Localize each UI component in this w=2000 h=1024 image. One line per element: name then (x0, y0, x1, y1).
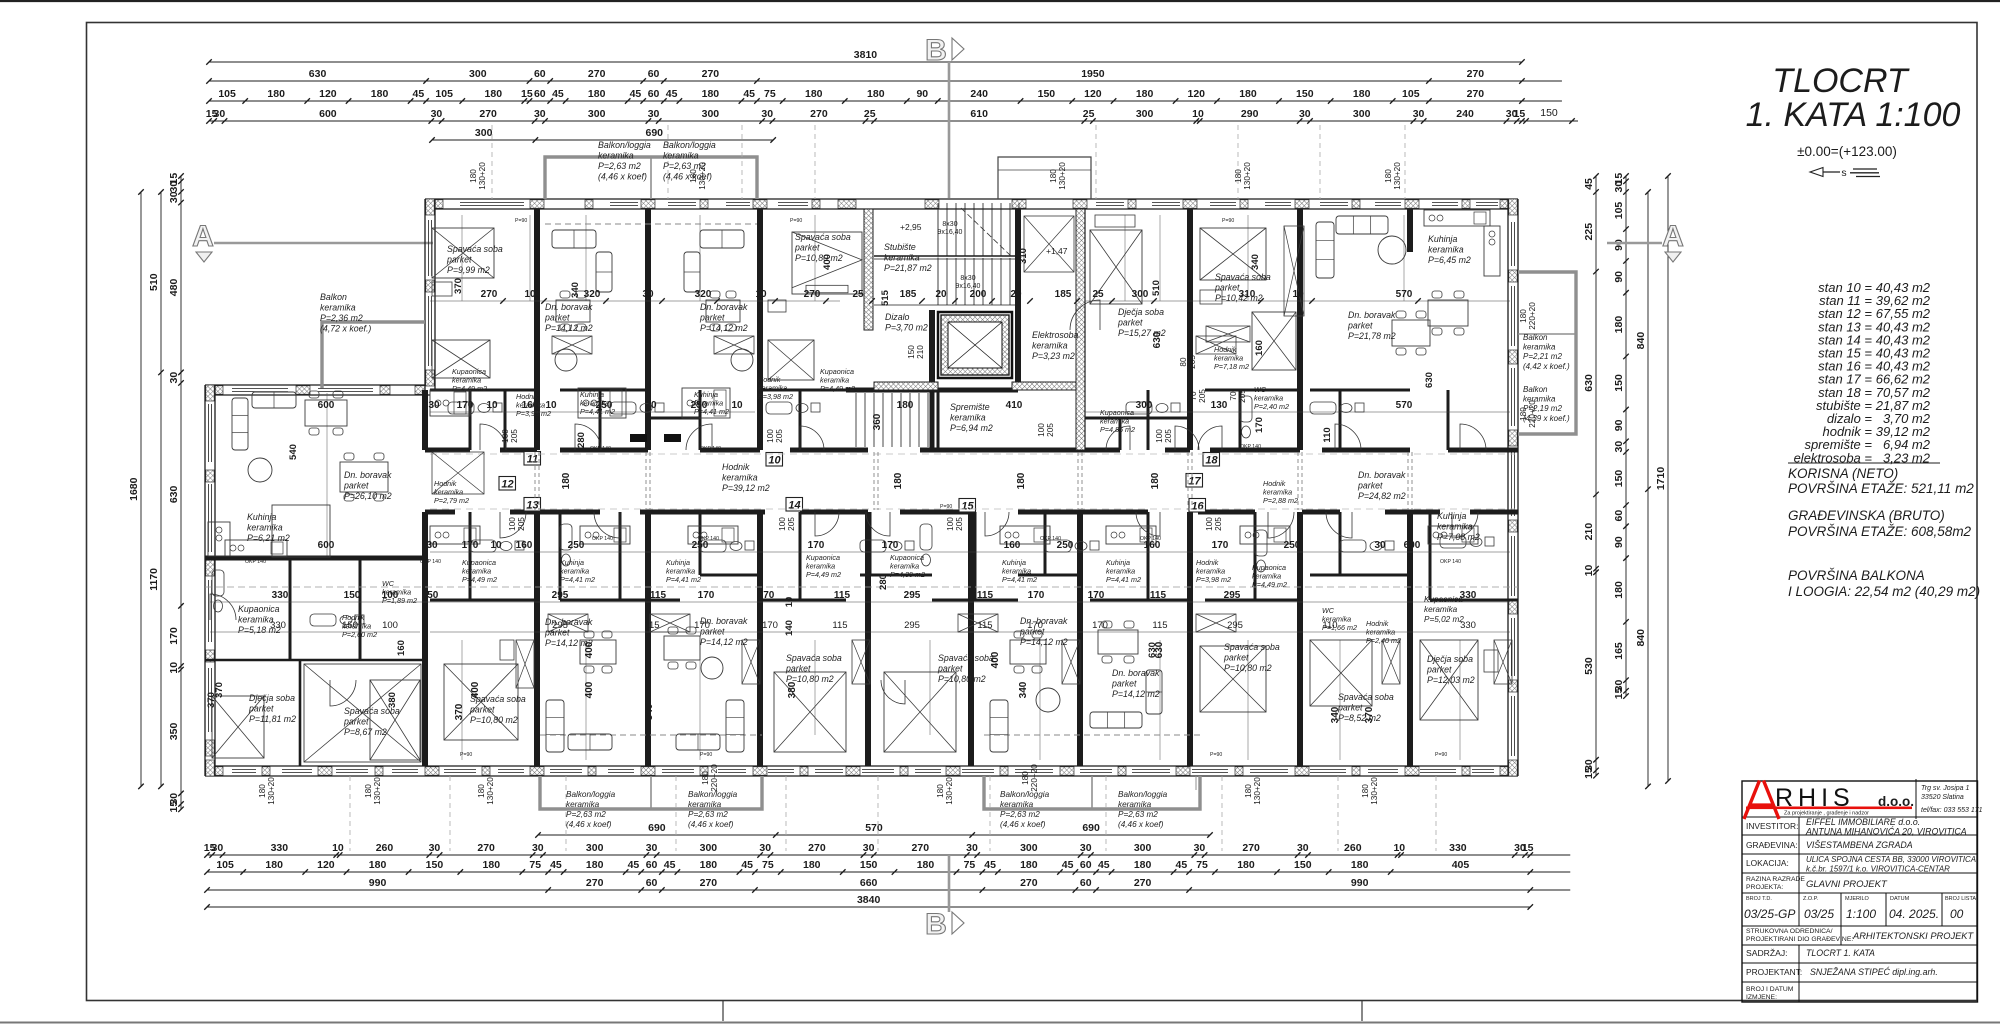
svg-text:115: 115 (650, 590, 667, 601)
svg-text:P=14,12 m2: P=14,12 m2 (1112, 689, 1160, 699)
svg-text:630: 630 (1152, 331, 1163, 348)
svg-text:300: 300 (475, 127, 493, 139)
svg-text:03/25: 03/25 (1804, 907, 1834, 921)
svg-text:180: 180 (1613, 581, 1625, 599)
svg-text:SNJEŽANA STIPEĆ dipl.ing.arh.: SNJEŽANA STIPEĆ dipl.ing.arh. (1810, 967, 1938, 977)
svg-text:840: 840 (1635, 629, 1647, 647)
svg-text:45: 45 (1176, 859, 1188, 871)
svg-text:180: 180 (1351, 859, 1369, 871)
svg-text:330: 330 (270, 620, 286, 631)
svg-text:300: 300 (588, 108, 606, 120)
svg-text:600: 600 (318, 400, 335, 411)
svg-text:P=14,12 m2: P=14,12 m2 (545, 323, 593, 333)
corridor wall upper (425, 448, 1518, 453)
svg-text:540: 540 (288, 444, 299, 460)
svg-text:180: 180 (477, 784, 486, 798)
svg-text:205: 205 (1198, 389, 1207, 403)
svg-text:290: 290 (1241, 108, 1259, 120)
svg-text:350: 350 (168, 723, 180, 741)
svg-text:165: 165 (1613, 642, 1625, 660)
svg-text:ARHITEKTONSKI PROJEKT: ARHITEKTONSKI PROJEKT (1852, 931, 1975, 941)
svg-text:P=2,63 m2: P=2,63 m2 (598, 161, 641, 171)
svg-text:300: 300 (1136, 400, 1153, 411)
svg-text:10: 10 (731, 400, 743, 411)
svg-text:33520 Slatina: 33520 Slatina (1921, 794, 1964, 801)
stair lower flight (856, 393, 928, 447)
svg-text:30: 30 (1299, 108, 1311, 120)
svg-text:185: 185 (900, 289, 917, 300)
title block label dividers (1799, 817, 1942, 1002)
svg-text:240: 240 (1456, 108, 1474, 120)
svg-text:Spavaća soba: Spavaća soba (795, 232, 851, 242)
row gradjevina (1746, 840, 1913, 850)
svg-text:P=21,78 m2: P=21,78 m2 (1348, 331, 1396, 341)
tiny P=90 labels (460, 218, 1447, 758)
svg-text:60: 60 (1080, 859, 1092, 871)
svg-text:180: 180 (258, 784, 267, 798)
svg-text:Dn. boravak: Dn. boravak (1348, 310, 1396, 320)
outer wall right (1507, 199, 1509, 776)
svg-text:P=90: P=90 (1435, 752, 1447, 758)
svg-text:300: 300 (1353, 108, 1371, 120)
interior wall grid verticals (425, 209, 1410, 766)
svg-text:295: 295 (904, 620, 920, 631)
svg-text:180: 180 (1239, 88, 1257, 100)
svg-text:180: 180 (1519, 407, 1528, 421)
svg-text:Spavaća soba: Spavaća soba (447, 244, 503, 254)
svg-text:parket: parket (1357, 481, 1383, 491)
svg-text:630: 630 (309, 68, 327, 80)
svg-text:170: 170 (882, 540, 899, 551)
room labels left wing / corridor (238, 345, 1298, 639)
inner dim strip y=598 (272, 590, 1477, 601)
svg-text:280: 280 (878, 574, 889, 590)
top dimension chain row 2 (209, 80, 1562, 82)
svg-text:170: 170 (462, 540, 479, 551)
svg-text:3810: 3810 (854, 49, 878, 61)
svg-text:10: 10 (768, 455, 781, 467)
svg-text:Balkon/loggia: Balkon/loggia (663, 140, 716, 150)
svg-text:30: 30 (1374, 540, 1386, 551)
svg-text:10: 10 (490, 540, 502, 551)
small paired dims (180/130+20 etc) (258, 162, 1537, 805)
svg-text:OKP 140: OKP 140 (590, 446, 611, 452)
svg-text:30: 30 (1194, 842, 1206, 854)
svg-text:370: 370 (454, 703, 465, 720)
svg-text:330: 330 (271, 842, 289, 854)
svg-text:90: 90 (1613, 271, 1625, 283)
svg-text:45: 45 (741, 859, 753, 871)
svg-text:90: 90 (1613, 536, 1625, 548)
svg-text:s: s (1841, 167, 1846, 179)
svg-text:parket: parket (248, 704, 274, 714)
svg-text:180: 180 (1016, 472, 1027, 489)
svg-text:P=4,39 m2: P=4,39 m2 (890, 570, 925, 579)
svg-text:25: 25 (852, 289, 864, 300)
top dimension chain row 4 (209, 120, 1562, 122)
svg-text:10: 10 (168, 662, 180, 674)
svg-text:400: 400 (990, 651, 1001, 668)
svg-text:100: 100 (508, 517, 517, 531)
svg-text:295: 295 (1227, 620, 1243, 631)
row sadrzaj (1746, 948, 1875, 958)
svg-text:110: 110 (1322, 427, 1333, 442)
svg-text:510: 510 (1151, 280, 1162, 296)
svg-text:80: 80 (1179, 357, 1188, 367)
svg-text:205: 205 (775, 429, 784, 443)
svg-text:180: 180 (1134, 859, 1152, 871)
svg-text:45: 45 (628, 859, 640, 871)
svg-text:IZMJENE:: IZMJENE: (1746, 994, 1777, 1001)
svg-text:250: 250 (691, 400, 708, 411)
svg-text:150: 150 (342, 620, 358, 631)
svg-text:(4,46 x koef): (4,46 x koef) (566, 820, 612, 829)
svg-text:170: 170 (694, 620, 710, 631)
svg-text:295: 295 (552, 620, 568, 631)
svg-text:8x30: 8x30 (960, 275, 975, 282)
svg-text:P=2,40 m2: P=2,40 m2 (1254, 402, 1289, 411)
svg-text:200: 200 (970, 289, 987, 300)
svg-text:keramika: keramika (238, 615, 274, 625)
svg-text:205: 205 (1188, 355, 1197, 369)
svg-text:P=4,49 m2: P=4,49 m2 (1252, 580, 1287, 589)
svg-text:30: 30 (429, 842, 441, 854)
svg-text:210: 210 (916, 345, 925, 359)
svg-text:150: 150 (344, 590, 361, 601)
svg-text:BROJ I DATUM: BROJ I DATUM (1746, 986, 1794, 993)
svg-text:parket: parket (446, 255, 472, 265)
svg-text:P=90: P=90 (1222, 218, 1234, 224)
svg-text:Elektrosoba: Elektrosoba (1032, 330, 1079, 340)
svg-text:170: 170 (1092, 620, 1108, 631)
inner dim strip y=408 (318, 400, 1413, 411)
svg-text:150: 150 (1038, 88, 1056, 100)
svg-text:120: 120 (317, 859, 335, 871)
svg-text:00: 00 (1950, 907, 1964, 921)
svg-text:P=90: P=90 (940, 504, 952, 510)
svg-text:(4,46 x koef): (4,46 x koef) (1118, 820, 1164, 829)
svg-text:160: 160 (396, 640, 407, 656)
svg-text:P=2,40 m2: P=2,40 m2 (1366, 636, 1401, 645)
svg-text:Z.O.P.: Z.O.P. (1803, 896, 1819, 902)
svg-text:keramika: keramika (598, 151, 634, 161)
svg-text:OKP 140: OKP 140 (1240, 444, 1261, 450)
outer wall top (left wing) (205, 384, 430, 386)
svg-text:75: 75 (1196, 859, 1208, 871)
svg-text:30: 30 (863, 842, 875, 854)
svg-text:300: 300 (1136, 108, 1154, 120)
svg-text:180: 180 (893, 472, 904, 489)
svg-text:60: 60 (1080, 877, 1092, 889)
svg-text:Kupaonica: Kupaonica (238, 604, 280, 614)
balcony bottom right pair (984, 776, 1200, 809)
svg-text:12: 12 (501, 479, 513, 491)
svg-text:Balkon: Balkon (320, 292, 347, 302)
svg-text:Dizalo: Dizalo (885, 312, 910, 322)
svg-text:70: 70 (1189, 391, 1198, 401)
svg-text:Kuhinja: Kuhinja (247, 512, 276, 522)
svg-text:105: 105 (435, 88, 453, 100)
inner dim lines across rooms (210, 301, 1510, 632)
svg-text:100: 100 (382, 620, 398, 631)
svg-text:170: 170 (457, 400, 474, 411)
svg-text:205: 205 (510, 429, 519, 443)
svg-text:P=6,94 m2: P=6,94 m2 (950, 423, 993, 433)
svg-text:160: 160 (1254, 340, 1265, 356)
svg-text:30: 30 (428, 400, 440, 411)
svg-text:P=4,41 m2: P=4,41 m2 (560, 575, 595, 584)
svg-text:300: 300 (700, 842, 718, 854)
svg-text:510: 510 (148, 273, 160, 291)
svg-text:keramika: keramika (722, 473, 758, 483)
svg-text:630: 630 (1583, 374, 1595, 392)
svg-text:340: 340 (1018, 681, 1029, 698)
svg-text:keramika: keramika (1118, 800, 1152, 809)
svg-text:115: 115 (1150, 590, 1167, 601)
svg-text:30: 30 (168, 191, 180, 203)
svg-text:180: 180 (1244, 784, 1253, 798)
svg-text:17: 17 (1188, 476, 1201, 488)
svg-text:P=2,63 m2: P=2,63 m2 (1118, 810, 1158, 819)
svg-text:15: 15 (1613, 687, 1625, 699)
svg-text:30: 30 (1080, 842, 1092, 854)
svg-text:keramika: keramika (950, 413, 986, 423)
svg-text:P=10,80 m2: P=10,80 m2 (938, 674, 986, 684)
svg-text:POVRŠINA ETAŽE: 521,11 m2: POVRŠINA ETAŽE: 521,11 m2 (1788, 481, 1974, 496)
svg-text:25: 25 (1083, 108, 1095, 120)
row broj i datum (1746, 986, 1794, 1001)
svg-text:400: 400 (470, 681, 481, 698)
svg-text:330: 330 (1460, 590, 1477, 601)
svg-text:30: 30 (1613, 441, 1625, 453)
svg-text:P=3,23 m2: P=3,23 m2 (1032, 351, 1075, 361)
svg-text:210: 210 (1583, 523, 1595, 541)
gradjevinska bruto (1788, 508, 1972, 539)
svg-text:130+20: 130+20 (267, 777, 276, 805)
svg-text:270: 270 (700, 877, 718, 889)
page top edge (0, 0, 2000, 2)
svg-text:OKP 140: OKP 140 (700, 446, 721, 452)
svg-text:OKP 140: OKP 140 (1040, 536, 1061, 542)
svg-text:keramika: keramika (1437, 522, 1473, 532)
svg-text:690: 690 (646, 127, 664, 139)
svg-text:parket: parket (1223, 653, 1249, 663)
svg-text:20: 20 (1010, 289, 1022, 300)
svg-text:P=90: P=90 (515, 218, 527, 224)
svg-text:115: 115 (834, 590, 851, 601)
svg-text:15: 15 (521, 88, 533, 100)
svg-text:180: 180 (701, 771, 710, 785)
svg-text:15: 15 (1522, 842, 1534, 854)
svg-text:180: 180 (586, 859, 604, 871)
svg-text:parket: parket (343, 481, 369, 491)
svg-text:205: 205 (1214, 517, 1223, 531)
svg-text:380: 380 (787, 681, 798, 698)
svg-text:Hodnik: Hodnik (722, 462, 750, 472)
svg-text:170: 170 (1028, 590, 1045, 601)
svg-text:P=24,82 m2: P=24,82 m2 (1358, 491, 1406, 501)
apartment area list (1794, 280, 1931, 465)
svg-text:130+20: 130+20 (1058, 162, 1067, 190)
svg-text:18: 18 (1205, 455, 1218, 467)
svg-text:k.č.br. 1597/1 k.o. VIROVITIC: k.č.br. 1597/1 k.o. VIROVITICA-CENTAR (1806, 865, 1950, 874)
svg-text:100: 100 (766, 429, 775, 443)
bottom dimension chain row 2 (207, 854, 1570, 856)
svg-text:15: 15 (1583, 767, 1595, 779)
svg-text:60: 60 (646, 877, 658, 889)
svg-text:OKP 140: OKP 140 (420, 559, 441, 565)
svg-text:POVRŠINA BALKONA: POVRŠINA BALKONA (1788, 568, 1925, 583)
svg-text:205: 205 (1164, 429, 1173, 443)
svg-text:270: 270 (702, 68, 720, 80)
svg-text:P=4,41 m2: P=4,41 m2 (1106, 575, 1141, 584)
svg-text:Trg sv. Josipa 1: Trg sv. Josipa 1 (1921, 785, 1969, 792)
svg-text:04. 2025.: 04. 2025. (1889, 907, 1939, 921)
svg-text:keramika: keramika (884, 253, 920, 263)
svg-text:keramika: keramika (1523, 343, 1556, 352)
svg-text:1. KATA 1:100: 1. KATA 1:100 (1746, 96, 1961, 134)
svg-text:+2,95: +2,95 (900, 222, 922, 232)
svg-text:parket: parket (1426, 665, 1452, 675)
svg-text:300: 300 (702, 108, 720, 120)
bottom dimension chain row 5 (3840) (207, 906, 1530, 908)
svg-text:150: 150 (1540, 107, 1558, 119)
svg-text:parket: parket (469, 705, 495, 715)
balcony right (Balkon P=2,21 / P=2,19) (1518, 272, 1576, 434)
right dimension chain mid (225 630 ...) (1595, 176, 1597, 776)
svg-text:150: 150 (860, 859, 878, 871)
svg-text:205: 205 (1238, 389, 1247, 403)
svg-text:150: 150 (426, 859, 444, 871)
svg-text:220+20: 220+20 (710, 764, 719, 792)
svg-text:180: 180 (803, 859, 821, 871)
svg-text:360: 360 (872, 413, 883, 430)
svg-text:115: 115 (832, 620, 847, 631)
svg-text:Kuhinja: Kuhinja (1428, 234, 1457, 244)
svg-text:180: 180 (702, 88, 720, 100)
svg-text:220+20: 220+20 (1528, 302, 1537, 330)
svg-text:405: 405 (1452, 859, 1470, 871)
furniture upper rooms (430, 210, 1500, 442)
svg-text:Dječja soba: Dječja soba (1118, 307, 1164, 317)
svg-text:P=6,45 m2: P=6,45 m2 (1428, 255, 1471, 265)
svg-text:P=4,49 m2: P=4,49 m2 (452, 384, 487, 393)
svg-text:P=90: P=90 (790, 218, 802, 224)
svg-text:340: 340 (1250, 254, 1261, 270)
svg-text:180: 180 (700, 859, 718, 871)
svg-text:30: 30 (426, 540, 438, 551)
svg-text:570: 570 (865, 822, 883, 834)
svg-text:630: 630 (1424, 372, 1435, 388)
svg-text:Balkon: Balkon (1523, 385, 1548, 394)
svg-text:30: 30 (532, 842, 544, 854)
svg-text:270: 270 (808, 842, 826, 854)
svg-text:P=21,87 m2: P=21,87 m2 (884, 263, 932, 273)
svg-text:180: 180 (371, 88, 389, 100)
balcony top-left (Balkon P=2,36) (322, 322, 425, 388)
svg-text:keramika: keramika (566, 800, 600, 809)
svg-text:60: 60 (534, 88, 546, 100)
fold mark right (1361, 1001, 1363, 1021)
svg-text:P=2,36 m2: P=2,36 m2 (320, 313, 363, 323)
outer wall left (204, 385, 206, 776)
svg-text:150: 150 (1294, 859, 1312, 871)
svg-text:Stubište: Stubište (884, 242, 916, 252)
svg-text:STRUKOVNA ODREDNICA/: STRUKOVNA ODREDNICA/ (1746, 928, 1833, 935)
svg-text:150: 150 (1613, 374, 1625, 392)
section marker B bottom (925, 855, 964, 941)
svg-text:180: 180 (1384, 169, 1393, 183)
svg-text:660: 660 (860, 877, 878, 889)
svg-text:105: 105 (218, 88, 236, 100)
svg-text:690: 690 (648, 822, 666, 834)
svg-text:keramika: keramika (1032, 341, 1068, 351)
svg-text:10: 10 (1393, 842, 1405, 854)
svg-text:90: 90 (1613, 419, 1625, 431)
svg-text:45: 45 (413, 88, 425, 100)
svg-text:250: 250 (1284, 540, 1301, 551)
svg-text:330: 330 (1460, 620, 1476, 631)
svg-text:(4,42 x koef.): (4,42 x koef.) (1523, 362, 1570, 371)
dashed reference lines (205, 125, 1518, 851)
svg-text:30: 30 (761, 108, 773, 120)
svg-text:25: 25 (864, 108, 876, 120)
svg-text:VIŠESTAMBENA ZGRADA: VIŠESTAMBENA ZGRADA (1806, 840, 1913, 850)
svg-text:P=3,98 m2: P=3,98 m2 (1196, 575, 1231, 584)
svg-text:10: 10 (332, 842, 344, 854)
svg-text:380: 380 (387, 692, 398, 708)
svg-text:400: 400 (584, 681, 595, 698)
svg-text:Balkon/loggia: Balkon/loggia (1000, 790, 1050, 799)
svg-text:180: 180 (1361, 784, 1370, 798)
bottom dimension chain row 1 (balcony 690 570 690) (538, 834, 1210, 836)
svg-text:A: A (192, 220, 214, 253)
svg-text:15: 15 (168, 801, 180, 813)
title block frame (1742, 781, 1978, 1002)
svg-text:270: 270 (1242, 842, 1260, 854)
svg-text:180: 180 (561, 472, 572, 489)
svg-text:295: 295 (552, 590, 569, 601)
svg-text:45: 45 (552, 88, 564, 100)
svg-text:30: 30 (1297, 842, 1309, 854)
svg-text:P=2,21 m2: P=2,21 m2 (1523, 352, 1562, 361)
svg-text:10: 10 (1583, 564, 1595, 576)
svg-text:30: 30 (534, 108, 546, 120)
svg-text:PROJEKTIRANI DIO GRAĐEVINE:: PROJEKTIRANI DIO GRAĐEVINE: (1746, 936, 1853, 943)
svg-text:10: 10 (784, 597, 795, 608)
svg-text:Kupaonica: Kupaonica (1424, 595, 1463, 604)
svg-text:30: 30 (645, 400, 657, 411)
section marker A left (192, 220, 433, 262)
svg-text:170: 170 (698, 590, 715, 601)
svg-text:130+20: 130+20 (1253, 777, 1262, 805)
svg-text:1680: 1680 (128, 477, 140, 501)
svg-text:150: 150 (1296, 88, 1314, 100)
svg-text:keramika: keramika (1000, 800, 1034, 809)
right dimension chain outer (840 840) (1647, 192, 1649, 786)
svg-text:P=10,80 m2: P=10,80 m2 (795, 253, 843, 263)
svg-text:205: 205 (955, 517, 964, 531)
svg-text:parket: parket (1117, 318, 1143, 328)
svg-text:105: 105 (1402, 88, 1420, 100)
svg-text:45: 45 (1062, 859, 1074, 871)
svg-text:100: 100 (778, 517, 787, 531)
svg-text:180: 180 (588, 88, 606, 100)
svg-text:Spavaća soba: Spavaća soba (786, 653, 842, 663)
svg-text:1950: 1950 (1081, 68, 1105, 80)
svg-text:180: 180 (897, 400, 914, 411)
svg-text:parket: parket (1111, 679, 1137, 689)
